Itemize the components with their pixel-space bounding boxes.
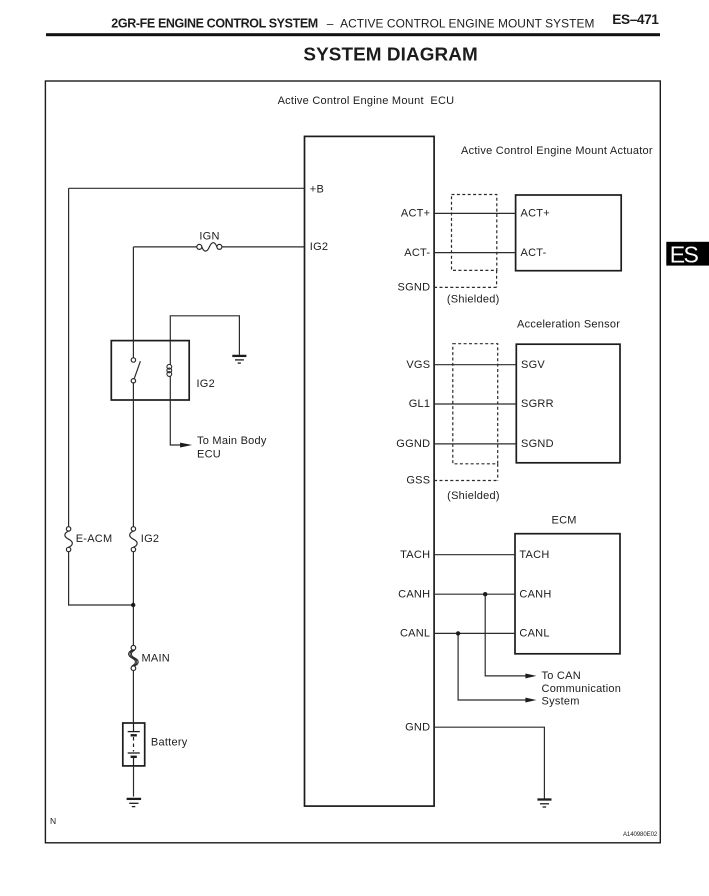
svg-text:ACTIVE CONTROL ENGINE MOUNT SY: ACTIVE CONTROL ENGINE MOUNT SYSTEM (340, 16, 594, 30)
svg-text:SGND: SGND (521, 438, 554, 450)
svg-text:ES–471: ES–471 (612, 12, 659, 27)
svg-text:(Shielded): (Shielded) (447, 294, 500, 306)
svg-text:CANH: CANH (519, 588, 551, 600)
svg-text:ACT-: ACT- (404, 247, 430, 259)
svg-text:TACH: TACH (400, 549, 430, 561)
svg-text:Active Control Engine Mount Ac: Active Control Engine Mount Actuator (461, 145, 653, 157)
svg-text:N: N (50, 816, 56, 826)
svg-text:TACH: TACH (519, 549, 549, 561)
svg-text:ACT+: ACT+ (401, 208, 430, 220)
svg-text:MAIN: MAIN (142, 652, 171, 664)
svg-text:SGRR: SGRR (521, 398, 554, 410)
svg-text:CANL: CANL (400, 628, 430, 640)
svg-text:CANH: CANH (398, 588, 430, 600)
svg-text:(Shielded): (Shielded) (447, 490, 500, 502)
svg-text:CANL: CANL (519, 628, 549, 640)
svg-text:IG2: IG2 (197, 378, 215, 390)
svg-text:SGND: SGND (398, 282, 431, 294)
svg-text:–: – (327, 16, 334, 30)
svg-text:IG2: IG2 (141, 533, 159, 545)
svg-text:Acceleration Sensor: Acceleration Sensor (517, 318, 620, 330)
svg-text:SGV: SGV (521, 359, 545, 371)
svg-text:Battery: Battery (151, 736, 188, 748)
svg-text:2GR-FE ENGINE CONTROL SYSTEM: 2GR-FE ENGINE CONTROL SYSTEM (111, 16, 318, 30)
svg-text:GL1: GL1 (409, 398, 431, 410)
svg-text:ACT-: ACT- (521, 247, 547, 259)
svg-text:SYSTEM DIAGRAM: SYSTEM DIAGRAM (303, 45, 477, 66)
svg-text:GSS: GSS (406, 475, 430, 487)
svg-text:To Main Body: To Main Body (197, 435, 267, 447)
svg-text:ES: ES (670, 242, 699, 268)
svg-text:GND: GND (405, 721, 430, 733)
svg-text:VGS: VGS (406, 359, 430, 371)
svg-text:IG2: IG2 (310, 241, 328, 253)
svg-text:IGN: IGN (199, 230, 219, 242)
svg-text:System: System (542, 695, 580, 707)
svg-text:ACT+: ACT+ (521, 208, 550, 220)
svg-text:GGND: GGND (396, 438, 430, 450)
svg-text:+B: +B (310, 183, 324, 195)
svg-text:To CAN: To CAN (542, 670, 581, 682)
svg-text:ECU: ECU (197, 448, 221, 460)
svg-text:A140980E02: A140980E02 (623, 831, 658, 838)
svg-text:E-ACM: E-ACM (76, 533, 113, 545)
svg-text:Active Control Engine Mount E: Active Control Engine Mount ECU (278, 95, 455, 107)
svg-text:Communication: Communication (542, 683, 622, 695)
svg-text:ECM: ECM (552, 515, 577, 527)
